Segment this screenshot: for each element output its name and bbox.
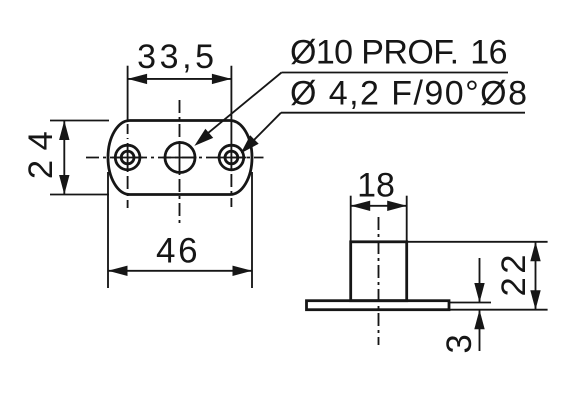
svg-text:3: 3 (440, 334, 479, 353)
svg-text:46: 46 (156, 231, 200, 270)
svg-text:22: 22 (495, 251, 533, 296)
svg-text:Ø 4,2 F/90°Ø8: Ø 4,2 F/90°Ø8 (290, 75, 528, 113)
svg-text:24: 24 (22, 122, 60, 179)
svg-text:18: 18 (357, 167, 395, 205)
svg-text:33,5: 33,5 (137, 38, 218, 76)
svg-text:Ø10 PROF. 16: Ø10 PROF. 16 (290, 34, 507, 72)
